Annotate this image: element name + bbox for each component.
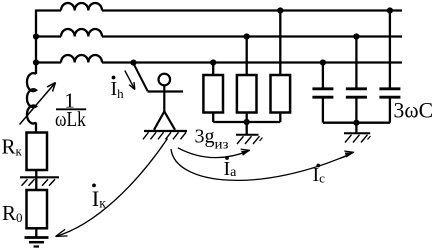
svg-text:3ωC: 3ωC: [394, 97, 434, 122]
svg-text:ωLk: ωLk: [55, 107, 86, 131]
